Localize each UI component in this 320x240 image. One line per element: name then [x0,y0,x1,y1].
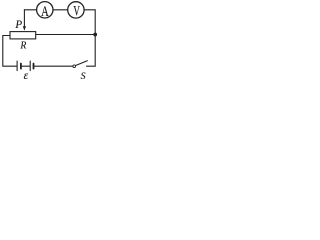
svg-text:ε: ε [24,70,29,82]
svg-text:S: S [81,71,86,82]
svg-text:V: V [73,2,80,19]
svg-text:A: A [41,3,49,19]
svg-text:P: P [14,19,22,31]
svg-text:R: R [19,40,27,52]
